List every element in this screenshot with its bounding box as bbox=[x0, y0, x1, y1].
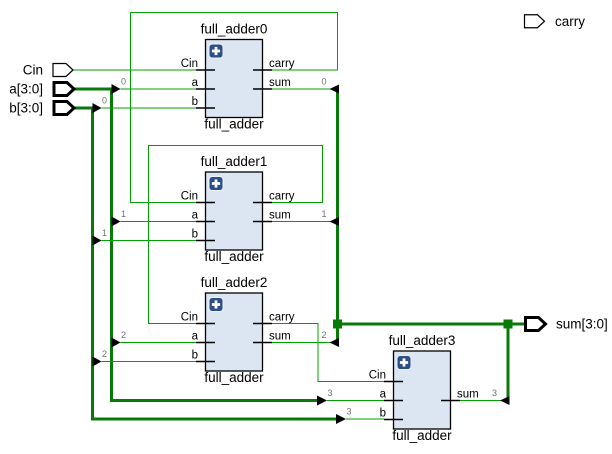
input pin Cin of full_adder2 bbox=[196, 323, 215, 325]
plus icon of full_adder1 bbox=[209, 177, 223, 191]
bus tap b[3] to full_adder3.b bbox=[346, 418, 384, 420]
svg-text:full_adder: full_adder bbox=[392, 428, 452, 443]
input pin b of full_adder0 bbox=[196, 107, 215, 109]
wire net carry2 (full_adder2.carry to full_adder3.Cin) bbox=[272, 324, 384, 382]
svg-text:3: 3 bbox=[347, 407, 352, 417]
svg-text:a: a bbox=[192, 77, 199, 89]
bus tap a[2] to full_adder2.a bbox=[121, 342, 197, 344]
svg-text:full_adder1: full_adder1 bbox=[201, 154, 268, 169]
bus sum[3:0] horizontal trunk to output port bbox=[338, 323, 525, 326]
plus icon of full_adder3 bbox=[397, 356, 411, 370]
svg-text:full_adder2: full_adder2 bbox=[201, 275, 268, 290]
svg-text:a: a bbox=[192, 210, 199, 222]
output pin sum of full_adder2 bbox=[253, 342, 272, 344]
svg-text:Cin: Cin bbox=[181, 58, 198, 70]
svg-text:carry: carry bbox=[269, 58, 295, 70]
input port symbol a[3:0] bbox=[9, 82, 74, 97]
block body full_adder2 bbox=[206, 293, 263, 371]
svg-text:0: 0 bbox=[102, 96, 107, 106]
input pin Cin of full_adder0 bbox=[196, 69, 215, 71]
svg-text:sum: sum bbox=[457, 389, 479, 401]
svg-text:full_adder0: full_adder0 bbox=[201, 22, 268, 37]
input pin a of full_adder2 bbox=[196, 342, 215, 344]
junction sum bus at vertical trunk bbox=[333, 320, 342, 329]
svg-text:b: b bbox=[192, 229, 198, 241]
input port symbol Cin bbox=[23, 63, 73, 78]
input pin b of full_adder2 bbox=[196, 361, 215, 363]
svg-text:0: 0 bbox=[121, 77, 126, 87]
full_adder instance full_adder0 (U0) bbox=[181, 22, 295, 132]
bus tap a[0] to full_adder0.a bbox=[121, 88, 197, 90]
bus a[3:0] trunk bbox=[71, 89, 317, 401]
svg-text:3: 3 bbox=[328, 388, 333, 398]
wire net Cin (input port to full_adder0.Cin) bbox=[73, 69, 196, 71]
output pin sum of full_adder3 bbox=[441, 400, 460, 402]
svg-text:b: b bbox=[380, 408, 386, 420]
svg-text:Cin: Cin bbox=[23, 63, 43, 78]
svg-text:carry: carry bbox=[269, 191, 295, 203]
wire net carry0 (full_adder0.carry loop to full_adder1.Cin) bbox=[131, 13, 338, 203]
bus tap a[1] to full_adder1.a bbox=[121, 221, 197, 223]
wire net carry1 (full_adder1.carry loop to full_adder2.Cin) bbox=[149, 146, 323, 324]
svg-text:Cin: Cin bbox=[181, 191, 198, 203]
output pin sum of full_adder0 bbox=[253, 88, 272, 90]
bus tap a[3] to full_adder3.a bbox=[327, 400, 384, 402]
svg-text:sum[3:0]: sum[3:0] bbox=[556, 317, 608, 332]
svg-text:full_adder3: full_adder3 bbox=[389, 333, 456, 348]
full_adder instance full_adder1 (U1) bbox=[181, 154, 295, 264]
input pin a of full_adder1 bbox=[196, 221, 215, 223]
input port symbol b[3:0] bbox=[9, 101, 74, 116]
bus merge sum[0] from full_adder0.sum bbox=[272, 88, 331, 90]
svg-text:1: 1 bbox=[102, 228, 107, 238]
svg-text:0: 0 bbox=[321, 77, 326, 87]
svg-text:1: 1 bbox=[121, 209, 126, 219]
bus merge sum[2] from full_adder2.sum bbox=[272, 342, 331, 344]
svg-text:2: 2 bbox=[102, 349, 107, 359]
svg-text:b: b bbox=[192, 350, 198, 362]
bus tap b[2] to full_adder2.b bbox=[102, 361, 197, 363]
output pin carry of full_adder1 bbox=[253, 202, 272, 204]
svg-text:full_adder: full_adder bbox=[204, 117, 264, 132]
svg-text:3: 3 bbox=[492, 388, 497, 398]
output port symbol sum[3:0] bbox=[526, 317, 608, 332]
svg-text:carry: carry bbox=[555, 14, 585, 29]
svg-text:a: a bbox=[192, 331, 199, 343]
svg-text:a: a bbox=[380, 389, 387, 401]
svg-text:b[3:0]: b[3:0] bbox=[9, 101, 43, 116]
full_adder instance full_adder2 (U2) bbox=[181, 275, 295, 385]
svg-text:sum: sum bbox=[269, 77, 291, 89]
junction sum bus at sum3 riser bbox=[504, 320, 513, 329]
input pin b of full_adder1 bbox=[196, 240, 215, 242]
svg-text:full_adder: full_adder bbox=[204, 249, 264, 264]
input pin Cin of full_adder3 bbox=[384, 381, 403, 383]
svg-text:a[3:0]: a[3:0] bbox=[9, 82, 43, 97]
output port symbol carry (unconnected) bbox=[525, 14, 586, 29]
svg-text:full_adder: full_adder bbox=[204, 370, 264, 385]
plus icon of full_adder2 bbox=[209, 298, 223, 312]
input pin Cin of full_adder1 bbox=[196, 202, 215, 204]
bus b[3:0] trunk bbox=[71, 108, 336, 419]
svg-text:carry: carry bbox=[269, 312, 295, 324]
input pin a of full_adder0 bbox=[196, 88, 215, 90]
bus segment sum[3] vertical bbox=[507, 324, 510, 401]
svg-text:sum: sum bbox=[269, 210, 291, 222]
plus icon of full_adder0 bbox=[209, 44, 223, 58]
svg-text:Cin: Cin bbox=[369, 370, 386, 382]
bus tap b[1] to full_adder1.b bbox=[102, 240, 197, 242]
input pin b of full_adder3 bbox=[384, 419, 403, 421]
bus tap b[0] to full_adder0.b bbox=[102, 107, 197, 109]
input pin a of full_adder3 bbox=[384, 400, 403, 402]
output pin carry of full_adder2 bbox=[253, 323, 272, 325]
svg-text:sum: sum bbox=[269, 331, 291, 343]
svg-text:2: 2 bbox=[121, 330, 126, 340]
block body full_adder1 bbox=[206, 172, 263, 250]
bus merge sum[3] from full_adder3.sum bbox=[460, 400, 501, 402]
svg-text:1: 1 bbox=[321, 209, 326, 219]
svg-text:2: 2 bbox=[321, 330, 326, 340]
svg-text:b: b bbox=[192, 96, 198, 108]
bus sum[3:0] vertical trunk bbox=[336, 89, 339, 343]
full_adder instance full_adder3 (U3) bbox=[369, 333, 479, 443]
bus merge sum[1] from full_adder1.sum bbox=[272, 221, 331, 223]
block body full_adder3 bbox=[394, 351, 451, 429]
output pin sum of full_adder1 bbox=[253, 221, 272, 223]
svg-text:Cin: Cin bbox=[181, 312, 198, 324]
output pin carry of full_adder0 bbox=[253, 69, 272, 71]
block body full_adder0 bbox=[206, 40, 263, 118]
